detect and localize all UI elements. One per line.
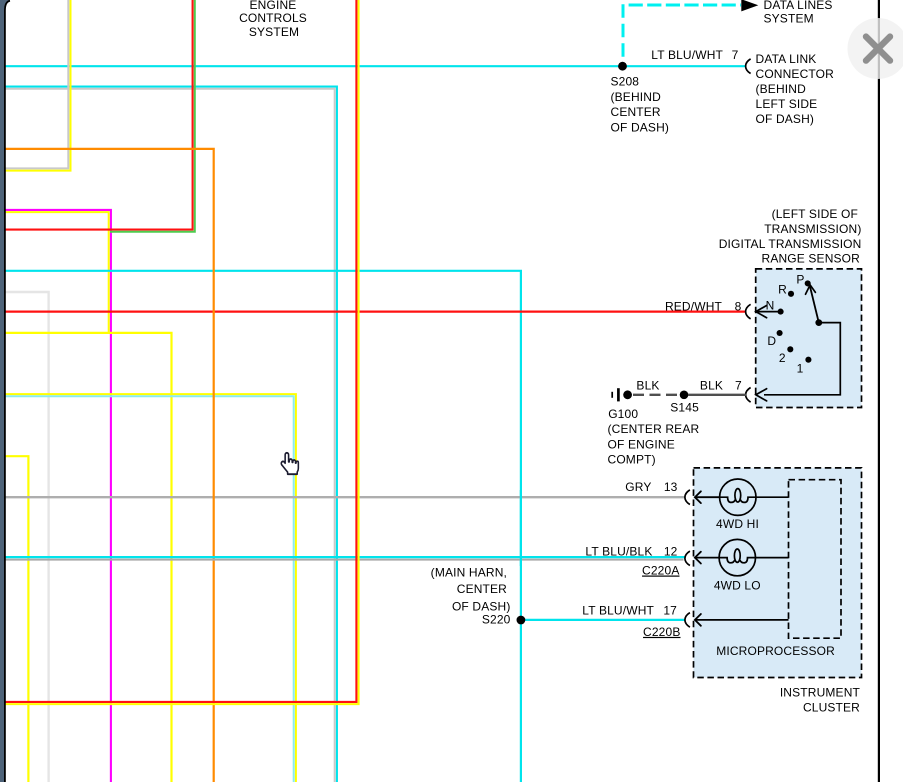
sensor internal path to pin 7 bbox=[764, 323, 840, 395]
arrow into pin 17 bbox=[695, 614, 701, 626]
label DATA LINK CONNECTOR bbox=[756, 52, 835, 126]
contact dot 2 bbox=[787, 346, 793, 352]
pivot dot bbox=[815, 319, 822, 326]
labels P R N D 2 1 bbox=[766, 273, 805, 376]
svg-text:CLUSTER: CLUSTER bbox=[803, 701, 860, 715]
wire gray2 inner companion of cyan2 bbox=[5, 89, 335, 782]
microprocessor lead pin 17 bbox=[695, 619, 789, 621]
node G100 dot bbox=[623, 390, 632, 399]
svg-text:CENTER: CENTER bbox=[457, 582, 507, 596]
svg-text:SYSTEM: SYSTEM bbox=[249, 25, 299, 39]
selector arm arrow to P bbox=[806, 285, 819, 323]
label S208 bbox=[611, 75, 670, 135]
svg-text:2: 2 bbox=[779, 351, 786, 365]
contact dot R bbox=[788, 291, 794, 297]
svg-text:RANGE SENSOR: RANGE SENSOR bbox=[762, 251, 861, 265]
arrow into pin 12 bbox=[695, 552, 701, 564]
svg-text:C220B: C220B bbox=[643, 625, 680, 639]
wire green-a companion bbox=[110, 0, 195, 232]
microprocessor box bbox=[789, 480, 842, 639]
svg-text:LT BLU/WHT: LT BLU/WHT bbox=[651, 48, 723, 62]
svg-text:G100: G100 bbox=[608, 407, 638, 421]
arrow into pin 7 bbox=[756, 389, 767, 401]
svg-text:OF ENGINE: OF ENGINE bbox=[608, 438, 675, 452]
wire cyan2 horizontal+vertical pair outer bbox=[5, 87, 337, 782]
wire magenta bbox=[5, 210, 111, 782]
svg-text:LEFT SIDE: LEFT SIDE bbox=[756, 97, 818, 111]
wire dashed DATA LINES branch bbox=[622, 4, 625, 57]
label ENGINE CONTROLS SYSTEM bbox=[239, 0, 307, 39]
svg-text:7: 7 bbox=[735, 379, 742, 393]
connector pin 12 cluster C220A (cup) bbox=[685, 551, 690, 565]
arrow to DATA LINES SYSTEM bbox=[741, 0, 758, 11]
wire BLK dashed segment bbox=[633, 394, 681, 396]
lamp 4WD LO leads bbox=[695, 557, 719, 559]
wire gray-a vertical from top bbox=[5, 0, 68, 168]
node S220 junction dot bbox=[517, 616, 526, 625]
svg-text:LT BLU/WHT: LT BLU/WHT bbox=[582, 603, 654, 617]
wire cyan3 vertical overlap patch bbox=[520, 490, 522, 566]
svg-text:12: 12 bbox=[664, 544, 678, 558]
svg-text:S208: S208 bbox=[611, 75, 640, 89]
instrument cluster box bbox=[694, 468, 862, 678]
close button X bbox=[866, 37, 890, 61]
svg-text:GRY: GRY bbox=[625, 480, 651, 494]
contact dot 1 bbox=[805, 357, 811, 363]
panel right border black line bbox=[878, 0, 880, 782]
svg-text:1: 1 bbox=[797, 362, 804, 376]
svg-text:DATA LINK: DATA LINK bbox=[756, 52, 817, 66]
pin 8 line from N bbox=[757, 311, 781, 313]
lamp 4WD HI bbox=[720, 479, 756, 515]
wire RED/WHT (red2) bbox=[5, 311, 746, 313]
ground G100 bbox=[612, 388, 618, 401]
svg-text:C220A: C220A bbox=[642, 564, 679, 578]
svg-text:S220: S220 bbox=[482, 612, 511, 626]
panel left border slate strip bbox=[0, 0, 10, 782]
svg-text:13: 13 bbox=[664, 480, 678, 494]
svg-text:MICROPROCESSOR: MICROPROCESSOR bbox=[716, 644, 835, 658]
label INSTRUMENT CLUSTER bbox=[780, 685, 861, 714]
wire yellow-a companion bbox=[5, 0, 71, 171]
svg-text:17: 17 bbox=[663, 603, 677, 617]
label DATA LINES SYSTEM bbox=[764, 0, 833, 26]
svg-text:BLK: BLK bbox=[636, 379, 659, 393]
svg-text:8: 8 bbox=[735, 300, 742, 314]
label DIGITAL TRANSMISSION RANGE SENSOR bbox=[719, 207, 862, 265]
wire silver bbox=[5, 292, 49, 782]
contact dot P bbox=[805, 280, 811, 286]
svg-text:(MAIN HARN,: (MAIN HARN, bbox=[431, 566, 507, 580]
node S208 junction dot bbox=[618, 62, 627, 71]
wire BLK solid segment bbox=[688, 394, 746, 396]
wire LT BLU/BLK black stripe bbox=[5, 559, 684, 561]
svg-text:DATA LINES: DATA LINES bbox=[764, 0, 833, 12]
svg-text:DIGITAL TRANSMISSION: DIGITAL TRANSMISSION bbox=[719, 237, 862, 251]
svg-text:LT BLU/BLK: LT BLU/BLK bbox=[585, 544, 652, 558]
svg-text:CONTROLS: CONTROLS bbox=[239, 11, 307, 25]
connector pin DATA LINK (cup) bbox=[746, 59, 751, 74]
svg-text:INSTRUMENT: INSTRUMENT bbox=[780, 685, 861, 699]
svg-text:S145: S145 bbox=[670, 401, 699, 415]
lamp 4WD HI leads bbox=[695, 496, 720, 498]
wire LT BLU/WHT S220 branch (cyan3) bbox=[5, 271, 521, 782]
wire LT BLU/WHT C220B (cyan5) bbox=[521, 619, 685, 621]
svg-text:BLK: BLK bbox=[700, 379, 723, 393]
svg-text:SYSTEM: SYSTEM bbox=[764, 12, 814, 26]
svg-text:N: N bbox=[766, 299, 775, 313]
mouse hand cursor bbox=[281, 453, 298, 474]
svg-text:(CENTER REAR: (CENTER REAR bbox=[608, 422, 700, 436]
arrow into pin 13 bbox=[695, 491, 701, 503]
svg-text:CENTER: CENTER bbox=[611, 105, 661, 119]
wire yellow3 bbox=[5, 394, 296, 782]
svg-text:R: R bbox=[778, 283, 787, 297]
wire orange bbox=[5, 149, 214, 782]
sensor internal selector contacts bbox=[777, 280, 823, 362]
node S145 dot bbox=[680, 391, 689, 400]
panel left border black line bbox=[5, 1, 10, 782]
svg-text:D: D bbox=[767, 334, 776, 348]
wire LT BLU/BLK (cyan4) bbox=[5, 556, 685, 558]
wire yellow2 bbox=[5, 333, 172, 782]
svg-text:P: P bbox=[796, 273, 804, 287]
transmission range sensor box U1 bbox=[756, 269, 862, 408]
svg-text:(BEHIND: (BEHIND bbox=[611, 90, 662, 104]
svg-text:TRANSMISSION): TRANSMISSION) bbox=[764, 222, 861, 236]
arrow into pin 8 bbox=[756, 306, 767, 318]
svg-text:RED/WHT: RED/WHT bbox=[665, 300, 723, 314]
connector pin 7 sensor (cup) bbox=[746, 388, 751, 403]
wire GRY (gray3) bbox=[5, 496, 685, 498]
wire red-a vertical from top bbox=[5, 0, 193, 230]
lamp 4WD LO bbox=[719, 539, 755, 575]
wire ltcyan companion of yellow3 bbox=[5, 396, 294, 782]
label MAIN HARN CENTER OF DASH bbox=[431, 566, 511, 627]
svg-text:4WD HI: 4WD HI bbox=[716, 517, 759, 531]
connector pin 8 sensor (cup) bbox=[746, 304, 751, 319]
wire yellow4 bbox=[5, 456, 28, 782]
svg-text:4WD LO: 4WD LO bbox=[714, 579, 761, 593]
wire LT BLU/WHT data-link (cyan1, y=66) bbox=[5, 65, 746, 67]
label G100 bbox=[608, 407, 700, 466]
svg-text:CONNECTOR: CONNECTOR bbox=[756, 67, 835, 81]
connector pin 13 cluster (cup) bbox=[685, 490, 690, 505]
svg-text:OF DASH): OF DASH) bbox=[611, 120, 670, 134]
wire yellow1 inner companion of magenta bbox=[5, 212, 109, 334]
wire yellow5 companion of red3 bbox=[5, 0, 359, 704]
svg-text:ENGINE: ENGINE bbox=[250, 0, 297, 12]
connector pin 17 cluster C220B (cup) bbox=[685, 613, 690, 628]
svg-text:(LEFT SIDE OF: (LEFT SIDE OF bbox=[772, 207, 858, 221]
svg-text:COMPT): COMPT) bbox=[608, 452, 656, 466]
contact dot D bbox=[777, 330, 783, 336]
close button bbox=[848, 18, 903, 79]
svg-text:7: 7 bbox=[732, 48, 739, 62]
wire red3 vertical from top bbox=[5, 0, 356, 702]
svg-text:(BEHIND: (BEHIND bbox=[756, 82, 807, 96]
contact dot N bbox=[778, 309, 784, 315]
svg-text:OF DASH): OF DASH) bbox=[756, 112, 815, 126]
